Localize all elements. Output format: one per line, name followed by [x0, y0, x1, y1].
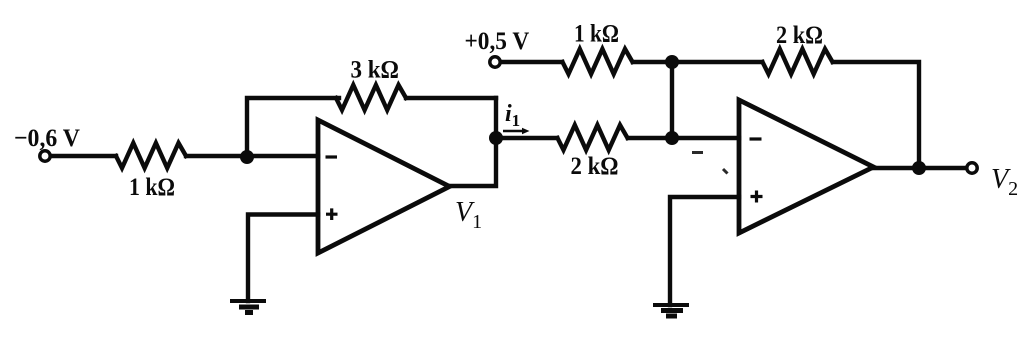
svg-text:i1: i1	[505, 101, 520, 130]
svg-text:2 kΩ: 2 kΩ	[571, 153, 619, 180]
svg-text:2 kΩ: 2 kΩ	[776, 22, 823, 49]
svg-text:3 kΩ: 3 kΩ	[351, 57, 400, 84]
svg-text:1 kΩ: 1 kΩ	[129, 174, 175, 201]
svg-text:V2: V2	[991, 164, 1018, 200]
svg-text:V1: V1	[455, 197, 482, 233]
svg-text:1 kΩ: 1 kΩ	[574, 21, 619, 48]
svg-text:+0,5 V: +0,5 V	[465, 28, 530, 55]
svg-text:−0,6 V: −0,6 V	[14, 125, 80, 152]
